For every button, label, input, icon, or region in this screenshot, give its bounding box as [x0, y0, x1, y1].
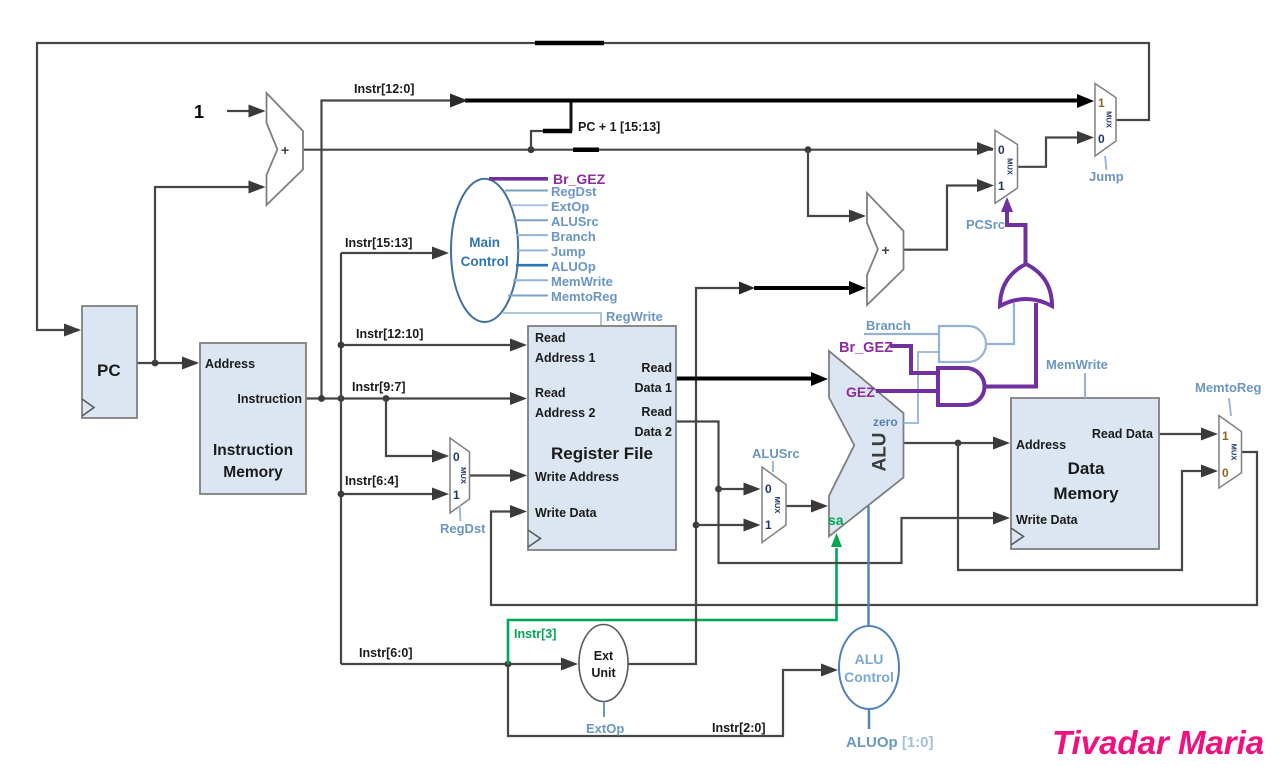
arrow: into jump mux input 0: [1077, 131, 1094, 144]
svg-text:Memory: Memory: [1053, 484, 1119, 503]
ALU: [829, 351, 904, 536]
svg-text:Tivadar Maria: Tivadar Maria: [1052, 724, 1264, 761]
mux MemtoReg: [1219, 416, 1242, 488]
svg-text:Read Data: Read Data: [1092, 427, 1154, 441]
svg-text:MemWrite: MemWrite: [1046, 357, 1108, 372]
arrow: into adder2 top: [849, 210, 866, 223]
arrow: into PC: [64, 324, 81, 337]
svg-text:1: 1: [194, 102, 204, 122]
wire: Instr[3] green to ALU sa input: [508, 548, 837, 664]
svg-text:zero: zero: [873, 415, 898, 429]
wire: and gate 2 output to or gate: [985, 303, 1037, 387]
wire: PC+1[15:13] concat jog up to Instr[12:0] bus: [531, 101, 571, 150]
wire: MemWrite control line: [513, 279, 548, 281]
svg-text:Read: Read: [535, 331, 566, 345]
block: Register File: [528, 326, 676, 550]
wire: read data 1 thick bus to ALU: [676, 377, 812, 381]
arrow: immediate into adder2: [849, 281, 866, 295]
svg-text:ALUOp [1:0]: ALUOp [1:0]: [846, 734, 934, 751]
wire: RegDst control line: [505, 190, 548, 192]
svg-text:Instruction: Instruction: [213, 442, 293, 459]
svg-text:Read: Read: [535, 386, 566, 400]
arrow: into instruction memory address: [182, 357, 199, 370]
arrow: into pcsrc mux input 0: [977, 142, 994, 155]
svg-text:Read: Read: [641, 405, 672, 419]
mux Jump: [1095, 84, 1116, 157]
OR gate (pointing up) purple: [1000, 264, 1052, 306]
node: junction instr[6:0] tap: [505, 661, 512, 668]
arrow: into alu control: [821, 664, 838, 677]
register PC: [82, 306, 137, 418]
adder 2 (branch target): [867, 193, 904, 305]
wire: alusrc mux input 1 from ext output: [696, 524, 746, 526]
svg-text:MUX: MUX: [773, 497, 782, 514]
node: junction PC+1 split to concat jog: [528, 146, 535, 153]
wire: ALUOp input stub below: [868, 709, 870, 729]
svg-text:Address 2: Address 2: [535, 406, 595, 420]
svg-text:Branch: Branch: [551, 229, 596, 244]
svg-text:Write Data: Write Data: [535, 506, 598, 520]
arrow: into jump mux input 1: [1077, 94, 1094, 108]
svg-text:RegDst: RegDst: [551, 184, 597, 199]
arrow: into read address 1: [510, 339, 527, 352]
leader line: RegDst: [460, 505, 461, 521]
wire: Jump control line: [518, 249, 548, 251]
mux RegDst: [450, 438, 470, 513]
svg-text:Unit: Unit: [591, 666, 616, 680]
svg-text:Write Address: Write Address: [535, 470, 619, 484]
arrow: PCSrc select up: [1001, 197, 1013, 212]
node: junction read data 2 to alusrc mux 0: [715, 486, 722, 493]
arrow: into pcsrc mux input 1: [977, 179, 994, 192]
adder 1 (PC+1): [267, 93, 304, 205]
wire: instruction output from memory: [306, 397, 513, 399]
mux PCSrc: [995, 130, 1018, 203]
block: Instruction Memory: [200, 343, 306, 494]
svg-text:Branch: Branch: [866, 318, 911, 333]
svg-text:0: 0: [998, 143, 1005, 157]
clock triangle on data memory: [1011, 528, 1024, 545]
wire: instruction field vertical bus: [340, 253, 342, 664]
svg-text:Br_GEZ: Br_GEZ: [839, 340, 893, 356]
svg-text:1: 1: [765, 518, 772, 532]
svg-text:1: 1: [1222, 429, 1229, 443]
svg-text:0: 0: [765, 482, 772, 496]
svg-text:RegWrite: RegWrite: [606, 309, 663, 324]
svg-text:+: +: [882, 242, 890, 258]
arrow: Instr[15:13] into main control: [432, 247, 449, 260]
wire: memtoreg mux output writeback loop to register file write data: [491, 452, 1257, 605]
clock triangle on register file: [528, 530, 541, 547]
svg-text:MUX: MUX: [1105, 111, 1114, 128]
svg-text:1: 1: [453, 488, 460, 502]
svg-text:Ext: Ext: [594, 649, 614, 663]
svg-text:Instr[12:10]: Instr[12:10]: [356, 327, 423, 341]
svg-text:0: 0: [453, 450, 460, 464]
svg-text:Instr[6:0]: Instr[6:0]: [359, 646, 412, 660]
wire: Br_GEZ control line purple: [489, 177, 548, 181]
wire: ALU result bypass to memtoreg mux 0: [958, 443, 1203, 570]
leader line: Jump: [1105, 156, 1107, 170]
wire: PC output up to adder bottom input: [155, 187, 263, 363]
wire: Instr[6:4] to regdst mux input 1: [341, 493, 434, 495]
arrow: immediate mid arrow: [739, 282, 755, 295]
wire: thick part of concat jog: [543, 129, 572, 134]
wire: read data 2 path to data memory write data: [676, 422, 995, 564]
node: junction PC+1 split to adder2: [805, 146, 812, 153]
arrow: into regdst mux 1: [432, 488, 449, 501]
wire: pcsrc mux output to jump mux input 0: [1018, 138, 1080, 167]
svg-text:Control: Control: [844, 669, 894, 685]
svg-text:Read: Read: [641, 361, 672, 375]
wire: alusrc mux input 0: [719, 488, 747, 490]
svg-text:Memory: Memory: [223, 464, 283, 481]
op-amp style main control ellipse: [451, 179, 518, 322]
wire: thick bus marker on top wire: [535, 41, 604, 46]
wire: zero output to and gate 1: [904, 352, 940, 423]
wire: RegWrite line to register file top: [503, 313, 601, 325]
svg-text:Data: Data: [1068, 459, 1105, 478]
svg-text:ALUSrc: ALUSrc: [752, 446, 800, 461]
node: junction on PC output: [152, 360, 159, 367]
svg-text:0: 0: [1098, 132, 1105, 146]
node: junction instr[6:4]: [338, 491, 345, 498]
svg-text:Instr[15:13]: Instr[15:13]: [345, 236, 412, 250]
svg-text:Instruction: Instruction: [237, 392, 302, 406]
wire: ExtOp control line: [511, 204, 548, 206]
wire: MemtoReg control line: [508, 295, 548, 297]
svg-text:Main: Main: [469, 235, 500, 250]
wire: and gate 1 output to or gate: [986, 303, 1014, 344]
wire: adder2 output to pcsrc mux input 1: [904, 186, 980, 250]
arrow: into read address 2: [510, 392, 527, 405]
svg-text:MUX: MUX: [1230, 444, 1239, 461]
wire: Instr[12:0] thick bus to jump mux: [465, 99, 1079, 103]
node: junction ext output to alusrc mux: [693, 522, 700, 529]
svg-text:ALU: ALU: [855, 651, 884, 667]
svg-text:GEZ: GEZ: [846, 384, 875, 400]
arrow: into data memory address: [993, 437, 1010, 450]
wire: Instr[12:10] to read address 1: [341, 344, 513, 346]
svg-text:1: 1: [998, 179, 1005, 193]
node: junction instr[9:7] to regdst mux: [383, 395, 390, 402]
wire: regdst mux output to write address: [470, 474, 513, 476]
svg-text:Jump: Jump: [551, 244, 586, 259]
arrow: read data 1 into ALU: [811, 372, 828, 386]
leader line: MemtoReg: [1229, 398, 1231, 416]
svg-text:ALU: ALU: [870, 432, 891, 471]
svg-text:Instr[6:4]: Instr[6:4]: [345, 474, 398, 488]
wire: ALU result to data memory address: [904, 442, 996, 444]
svg-text:Control: Control: [461, 254, 509, 269]
arrow: read data into memtoreg mux 1: [1201, 428, 1218, 441]
svg-text:sa: sa: [828, 512, 844, 528]
arrow: into memtoreg mux 0: [1201, 465, 1218, 478]
wire: thick immediate bus into adder2: [754, 286, 851, 290]
wire: Instr[15:13] to main control: [341, 252, 435, 254]
wire: GEZ into and gate 2: [876, 389, 938, 393]
svg-text:Address 1: Address 1: [535, 351, 595, 365]
wire: Instr[6:0] to ext unit: [341, 663, 563, 665]
svg-text:+: +: [281, 142, 289, 158]
leader line: ExtOp: [603, 702, 605, 718]
svg-text:Instr[2:0]: Instr[2:0]: [712, 721, 765, 735]
block: Data Memory: [1011, 398, 1159, 549]
wire: instruction bus up left column: [322, 101, 451, 399]
wire: PC+1 down to adder2 top input: [808, 150, 851, 216]
node: junction instruction to upper bus: [318, 395, 325, 402]
node: junction ALU result: [955, 440, 962, 447]
svg-text:ALUSrc: ALUSrc: [551, 214, 599, 229]
arrow: into alusrc mux 1: [744, 519, 761, 532]
mux ALUSrc: [762, 467, 786, 543]
wire: Branch signal into and gate 1: [864, 333, 939, 335]
svg-text:MemWrite: MemWrite: [551, 274, 613, 289]
arrow: into regdst mux 0: [432, 450, 449, 463]
svg-text:Instr[3]: Instr[3]: [514, 627, 556, 641]
wire: Br_GEZ into and gate 2: [890, 346, 938, 373]
svg-text:Instr[9:7]: Instr[9:7]: [352, 380, 405, 394]
arrow: green sa into ALU: [831, 533, 842, 547]
wire: or gate output up to PCSrc select: [1007, 205, 1026, 265]
svg-text:RegDst: RegDst: [440, 521, 486, 536]
wire: adder1 output PC+1: [303, 149, 993, 151]
svg-text:PC + 1 [15:13]: PC + 1 [15:13]: [578, 120, 660, 134]
svg-text:Write Data: Write Data: [1016, 513, 1079, 527]
svg-text:MUX: MUX: [459, 467, 468, 484]
svg-text:Address: Address: [1016, 438, 1066, 452]
AND gate 1 (branch and zero): [939, 326, 986, 362]
svg-text:MUX: MUX: [1006, 158, 1015, 175]
svg-text:Jump: Jump: [1089, 169, 1124, 184]
arrow: into write data: [510, 505, 527, 518]
op-amp style ALU control ellipse: [839, 626, 899, 709]
arrow: into write address: [510, 469, 527, 482]
svg-text:Address: Address: [205, 357, 255, 371]
arrow: alusrc mux output into ALU: [811, 500, 828, 513]
wire: PC output to Instruction Memory address: [137, 362, 197, 364]
wire: ALUOp control line: [516, 264, 548, 267]
wire: instr[9:7] branch down to regdst mux input 0: [386, 399, 434, 457]
arrow: into data memory write data: [993, 512, 1010, 525]
clock triangle on PC: [82, 399, 94, 416]
wire: Instr[2:0] down and to ALU control: [508, 664, 823, 736]
leader line: ALUSrc: [772, 461, 774, 472]
wire: jump mux output to top and down left into PC: [37, 43, 1149, 330]
svg-text:1: 1: [1098, 96, 1105, 110]
wire: ext unit output right and up to branch adder: [628, 288, 740, 664]
svg-text:ALUOp: ALUOp: [551, 259, 596, 274]
wire: ALU control output up into ALU: [867, 506, 869, 626]
wire: Branch control line: [516, 234, 548, 236]
node: junction instruction to field taps: [338, 395, 345, 402]
arrow: PC into adder1: [249, 181, 266, 194]
wire: thick vertical of concat jog: [570, 100, 573, 131]
arrow: constant 1 into adder1: [249, 105, 266, 118]
svg-text:0: 0: [1222, 466, 1229, 480]
svg-text:ExtOp: ExtOp: [551, 199, 589, 214]
wire: thick bus marker on PC+1 wire: [573, 147, 599, 152]
svg-text:Register File: Register File: [551, 444, 653, 463]
arrow: Instr[12:0] bus mid arrow: [450, 94, 468, 108]
svg-text:Data 2: Data 2: [634, 425, 672, 439]
svg-text:MemtoReg: MemtoReg: [1195, 380, 1262, 395]
arrow: into alusrc mux 0: [744, 483, 761, 496]
wire: data memory read data to memtoreg mux 1: [1159, 433, 1203, 435]
svg-text:PCSrc: PCSrc: [966, 217, 1005, 232]
svg-text:Instr[12:0]: Instr[12:0]: [354, 82, 414, 96]
svg-text:MemtoReg: MemtoReg: [551, 289, 618, 304]
svg-text:Data 1: Data 1: [634, 381, 672, 395]
leader line: MemWrite to data memory: [1084, 373, 1086, 398]
wire: ALUSrc control line: [514, 219, 548, 221]
node: junction instr[12:10]: [338, 342, 345, 349]
svg-text:PC: PC: [97, 361, 121, 380]
arrow: into ext unit: [561, 658, 578, 671]
op-amp style ext unit ellipse: [579, 625, 628, 702]
wire: constant 1 into adder top input: [227, 110, 263, 112]
AND gate 2 (Br_GEZ and GEZ) purple: [938, 368, 985, 405]
wire: alusrc mux output to ALU: [786, 505, 813, 507]
svg-text:ExtOp: ExtOp: [586, 721, 624, 736]
